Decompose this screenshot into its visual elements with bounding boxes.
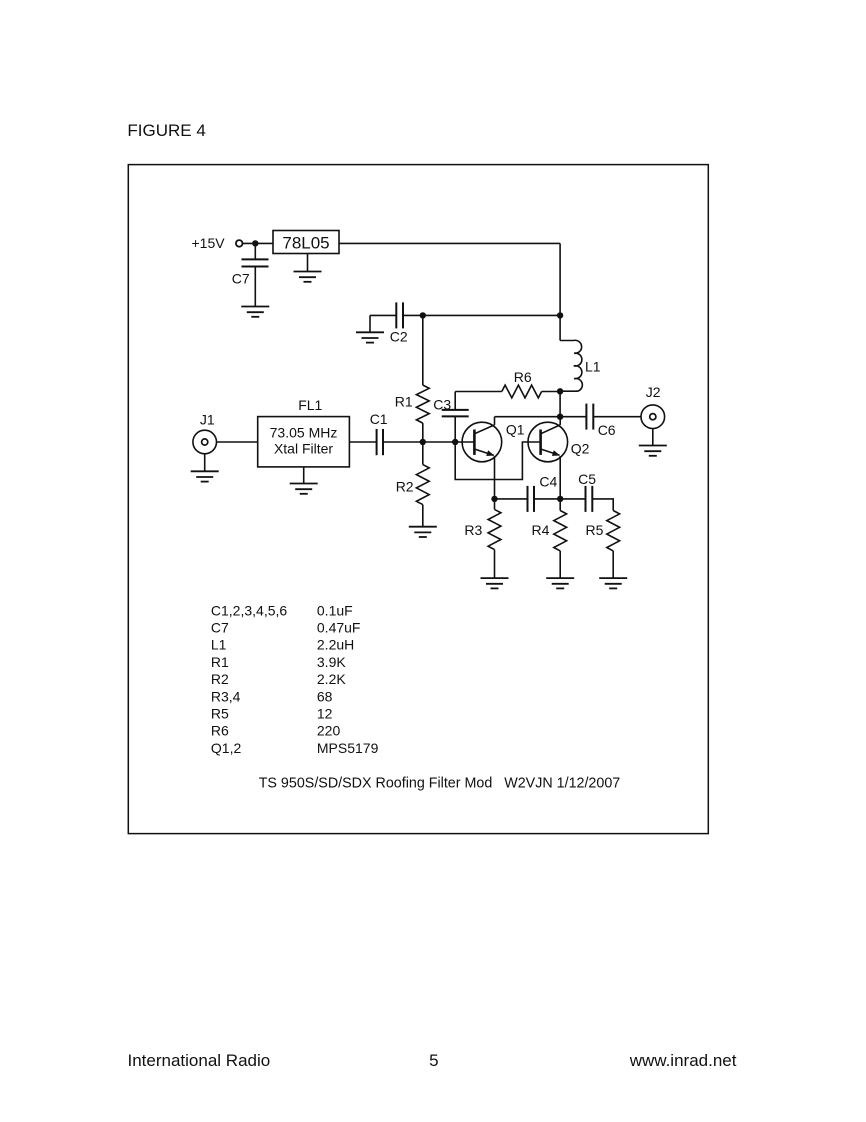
wire C3 bottom stem — [454, 416, 456, 442]
connector J2 — [641, 405, 665, 429]
resistor R5 — [607, 511, 620, 551]
svg-text:R3,4: R3,4 — [211, 688, 241, 704]
svg-text:0.1uF: 0.1uF — [317, 602, 353, 618]
wire R1 bottom lead — [422, 423, 424, 442]
capacitor C3 — [442, 410, 469, 417]
svg-text:R3: R3 — [464, 522, 482, 538]
parts list — [211, 602, 379, 756]
svg-text:R2: R2 — [211, 671, 229, 687]
ground under R3 — [481, 578, 509, 588]
svg-text:C5: C5 — [578, 471, 596, 487]
svg-text:R4: R4 — [532, 522, 550, 538]
wire C3 top corner to R6 — [455, 391, 502, 393]
ground under J1 — [191, 471, 219, 481]
wire Q1 emitter — [494, 456, 496, 499]
svg-text:MPS5179: MPS5179 — [317, 740, 379, 756]
junction supply rail — [557, 312, 563, 318]
terminal +15V — [236, 240, 243, 247]
svg-text:C1: C1 — [370, 411, 388, 427]
svg-text:C7: C7 — [211, 620, 229, 636]
wire C7 bottom stem — [254, 267, 256, 307]
ground under C2 — [356, 332, 384, 342]
wire L1 bottom to collector node — [559, 391, 561, 416]
connector J1 — [193, 430, 217, 454]
junction collector node — [557, 414, 563, 420]
resistor R2 — [416, 465, 429, 505]
wire C2 left lead — [370, 314, 396, 316]
wire supply rail down — [559, 243, 561, 315]
svg-text:TS 950S/SD/SDX Roofing Filter: TS 950S/SD/SDX Roofing Filter Mod W2VJN … — [259, 775, 621, 791]
junction L1 bottom / R6 — [557, 388, 563, 394]
wire R4 top lead — [559, 499, 561, 511]
svg-text:Q2: Q2 — [571, 440, 590, 456]
transistor Q2 — [528, 422, 568, 462]
junction C2/R1 — [420, 312, 426, 318]
wire C2 right lead to supply junction — [403, 314, 560, 316]
svg-text:J2: J2 — [646, 384, 661, 400]
wire C3 top stem — [454, 392, 456, 410]
svg-text:R5: R5 — [211, 706, 229, 722]
junction Q2 emitter node — [557, 496, 563, 502]
regulator U1 78L05 box — [273, 231, 339, 254]
resistor R6 — [502, 385, 542, 398]
ground under FL1 — [290, 484, 318, 494]
svg-text:5: 5 — [429, 1051, 438, 1070]
wire 78L05 ground stem — [307, 254, 309, 272]
wire J1 ground stem — [204, 454, 206, 472]
junction Q1 emitter node — [491, 496, 497, 502]
capacitor C5 — [586, 486, 593, 512]
svg-text:2.2K: 2.2K — [317, 671, 346, 687]
svg-text:C2: C2 — [390, 329, 408, 345]
wire C2 left corner to ground — [369, 315, 371, 332]
ground under R5 — [599, 578, 627, 588]
junction +15V/C7 — [252, 240, 258, 246]
wire C5 to R5 corner — [592, 499, 613, 511]
wire FL1 to C1 — [349, 441, 376, 443]
svg-text:J1: J1 — [200, 412, 215, 428]
wire C7 top stem — [254, 243, 256, 259]
svg-text:L1: L1 — [211, 637, 227, 653]
svg-text:+15V: +15V — [192, 235, 226, 251]
wire Q2 emitter — [559, 456, 561, 499]
wire collector output line — [495, 416, 587, 418]
transistor Q1 — [462, 422, 502, 462]
wire J1 to FL1 — [217, 441, 258, 443]
wire R4 bottom lead — [559, 551, 561, 578]
wire C4 to Q2 emitter node — [534, 498, 586, 500]
resistor R3 — [488, 509, 501, 549]
svg-text:12: 12 — [317, 706, 333, 722]
svg-text:R2: R2 — [396, 479, 414, 495]
svg-text:220: 220 — [317, 723, 341, 739]
svg-text:C1,2,3,4,5,6: C1,2,3,4,5,6 — [211, 602, 287, 618]
svg-text:Xtal Filter: Xtal Filter — [274, 441, 333, 457]
svg-text:3.9K: 3.9K — [317, 654, 346, 670]
svg-text:2.2uH: 2.2uH — [317, 637, 354, 653]
junction base node C3 — [452, 439, 458, 445]
wire C1 to Q1 base — [383, 441, 474, 443]
wire FL1 ground stem — [303, 467, 305, 484]
svg-text:C4: C4 — [539, 473, 557, 489]
wire R3 top lead — [494, 499, 496, 510]
svg-text:FIGURE 4: FIGURE 4 — [127, 121, 205, 140]
capacitor C4 — [528, 486, 535, 512]
wire 78L05 output to supply rail — [339, 242, 560, 244]
svg-text:C6: C6 — [598, 422, 616, 438]
svg-text:73.05 MHz: 73.05 MHz — [270, 424, 338, 440]
svg-text:Q1: Q1 — [506, 422, 525, 438]
wire J2 ground stem — [652, 429, 654, 446]
svg-text:www.inrad.net: www.inrad.net — [629, 1051, 737, 1070]
wire C6 to J2 — [593, 416, 641, 418]
svg-text:Q1,2: Q1,2 — [211, 740, 242, 756]
inductor L1 — [560, 340, 582, 391]
ground under 78L05 — [294, 272, 322, 282]
svg-text:78L05: 78L05 — [282, 234, 329, 253]
capacitor C7 — [242, 259, 269, 266]
wire +15V to 78L05 — [243, 242, 274, 244]
capacitor C1 — [377, 429, 383, 455]
ground under R4 — [546, 578, 574, 588]
ground under C7 — [241, 307, 269, 317]
resistor R4 — [554, 511, 567, 551]
wire supply to L1 top — [559, 315, 561, 340]
svg-text:R1: R1 — [395, 394, 413, 410]
junction base node R1/R2 — [420, 439, 426, 445]
svg-text:R1: R1 — [211, 654, 229, 670]
svg-text:C7: C7 — [232, 271, 250, 287]
wire R3 bottom lead — [494, 550, 496, 579]
svg-text:FL1: FL1 — [298, 397, 322, 413]
svg-text:68: 68 — [317, 688, 333, 704]
capacitor C6 — [586, 404, 593, 430]
wire R2 bottom lead — [422, 505, 424, 527]
resistor R1 — [416, 385, 429, 423]
capacitor C2 — [396, 302, 403, 328]
figure border frame — [128, 165, 708, 834]
wire R6 to L1 junction — [542, 391, 561, 393]
ground under R2 — [409, 527, 437, 537]
wire R2 top lead — [422, 442, 424, 465]
svg-text:L1: L1 — [585, 358, 601, 374]
svg-text:C3: C3 — [433, 397, 451, 413]
wire emitter line Q1 to C4 — [495, 498, 528, 500]
svg-text:International Radio: International Radio — [128, 1051, 271, 1070]
wire Q2 collector — [559, 417, 561, 425]
wire Q1 collector — [494, 417, 496, 425]
svg-text:0.47uF: 0.47uF — [317, 620, 361, 636]
svg-text:R5: R5 — [586, 522, 604, 538]
wire R5 bottom lead — [612, 551, 614, 578]
filter FL1 box — [258, 417, 350, 467]
wire base coupling U path — [455, 442, 540, 480]
svg-text:R6: R6 — [514, 369, 532, 385]
wire R1 top lead — [422, 315, 424, 385]
svg-text:R6: R6 — [211, 723, 229, 739]
ground under J2 — [639, 446, 667, 456]
